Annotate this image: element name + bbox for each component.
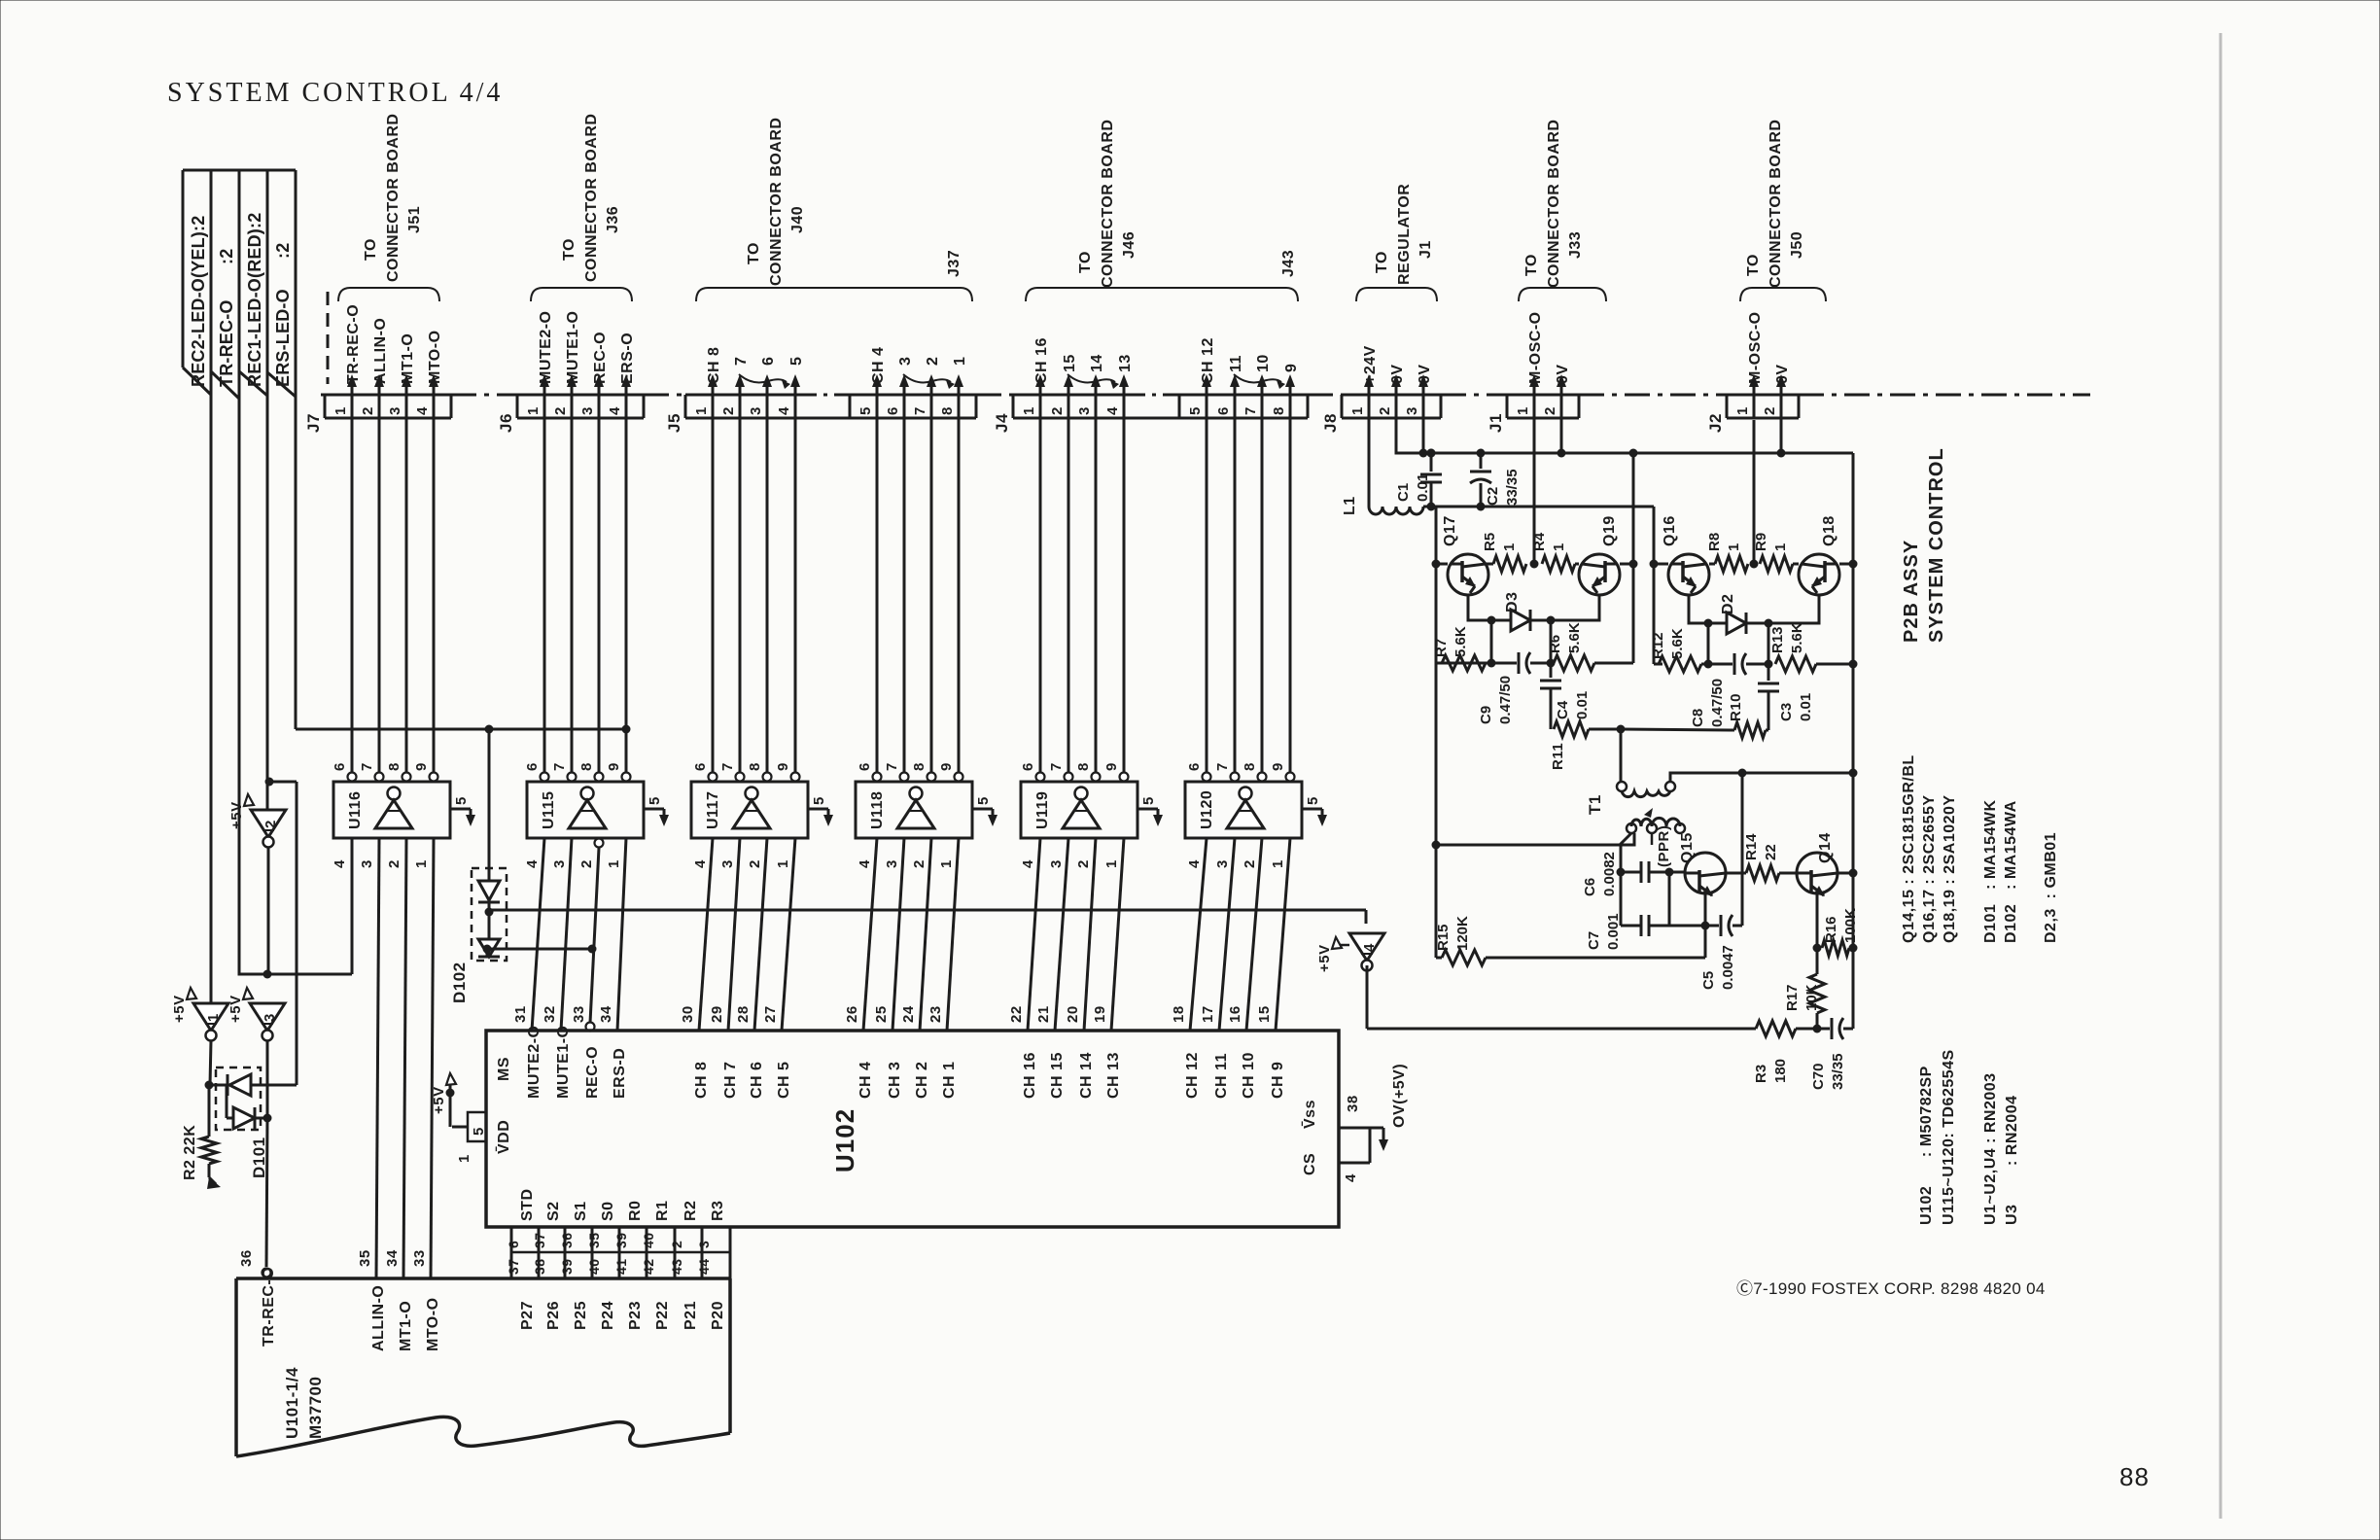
svg-text:44: 44 xyxy=(696,1258,712,1275)
svg-text:3: 3 xyxy=(262,1013,278,1022)
svg-text:MUTE1-O: MUTE1-O xyxy=(565,311,581,385)
svg-text:C5: C5 xyxy=(1700,971,1717,990)
svg-text:J7: J7 xyxy=(304,413,323,433)
svg-text:29: 29 xyxy=(709,1005,725,1023)
feedback wire from bias vertical to T1 secondary xyxy=(1436,833,1634,845)
svg-text:7: 7 xyxy=(1048,762,1065,771)
svg-text:C3: C3 xyxy=(1778,703,1795,721)
svg-text:R3: R3 xyxy=(1753,1065,1769,1083)
svg-text:J1: J1 xyxy=(1487,413,1505,433)
svg-text:1: 1 xyxy=(606,859,622,868)
U117 outputs to U102 30-27 xyxy=(699,838,713,1031)
connector J7 xyxy=(325,394,451,397)
U118 outputs to U102 26-23 xyxy=(863,838,877,1031)
gate1 output down xyxy=(210,1040,211,1085)
svg-text:T1: T1 xyxy=(1586,794,1604,815)
svg-text:TO: TO xyxy=(1523,254,1540,276)
svg-text:9: 9 xyxy=(1270,762,1286,771)
svg-text:7: 7 xyxy=(912,406,928,415)
svg-text:REGULATOR: REGULATOR xyxy=(1396,184,1413,285)
svg-text:14: 14 xyxy=(1089,354,1105,372)
signal label boxes top-left xyxy=(183,169,211,172)
svg-text:M-OSC-O: M-OSC-O xyxy=(1527,311,1544,384)
svg-text:0V: 0V xyxy=(1417,364,1433,384)
Q14 emitter xyxy=(1816,893,1819,948)
svg-text:M37700: M37700 xyxy=(306,1377,325,1439)
wires J6 to U115 xyxy=(543,418,546,777)
svg-text:21: 21 xyxy=(1035,1005,1052,1023)
svg-text:J5: J5 xyxy=(665,413,683,433)
buffer IC U115 xyxy=(527,782,644,838)
capacitor C70 xyxy=(1817,1028,1830,1031)
svg-text:U1~U2,U4 : RN2003: U1~U2,U4 : RN2003 xyxy=(1982,1072,1999,1225)
svg-text:CH 2: CH 2 xyxy=(914,1062,930,1099)
svg-text:J37: J37 xyxy=(946,250,962,277)
svg-text:R5: R5 xyxy=(1482,533,1498,551)
svg-text:R14: R14 xyxy=(1743,833,1760,860)
capacitor C5 xyxy=(1705,925,1719,927)
svg-text:7: 7 xyxy=(551,762,568,771)
IC U101 (torn box) xyxy=(236,1277,730,1280)
node to J2 pin1 xyxy=(1753,420,1756,564)
svg-text:27: 27 xyxy=(762,1005,779,1023)
svg-text:CH 16: CH 16 xyxy=(1022,1052,1038,1099)
svg-text:J8: J8 xyxy=(1321,413,1340,433)
svg-text:R10: R10 xyxy=(1728,693,1744,721)
svg-text:2: 2 xyxy=(747,859,763,868)
svg-text:13: 13 xyxy=(1117,354,1134,372)
C6 line xyxy=(1621,833,1631,872)
svg-text:7: 7 xyxy=(884,762,900,771)
svg-text:CH 4: CH 4 xyxy=(857,1062,874,1099)
svg-text:32: 32 xyxy=(542,1005,558,1023)
svg-text:0.01: 0.01 xyxy=(1574,691,1591,719)
svg-text:40: 40 xyxy=(641,1232,656,1248)
svg-text:22: 22 xyxy=(1008,1005,1025,1023)
svg-text:7: 7 xyxy=(1242,406,1259,415)
page edge line xyxy=(2220,33,2222,1519)
svg-text:1: 1 xyxy=(1270,859,1286,868)
svg-text:+5V: +5V xyxy=(227,995,244,1023)
svg-text:2: 2 xyxy=(669,1241,684,1248)
svg-text:9: 9 xyxy=(606,762,622,771)
svg-text:CS: CS xyxy=(1302,1153,1318,1175)
J1 pin2 to rail xyxy=(1560,418,1563,453)
transistor Q17 xyxy=(1448,554,1488,595)
svg-text:25: 25 xyxy=(873,1005,890,1023)
svg-text:6: 6 xyxy=(506,1241,521,1248)
svg-text:1: 1 xyxy=(1726,543,1742,551)
svg-text:ALLIN-O: ALLIN-O xyxy=(372,318,389,384)
base line Q17 xyxy=(1436,563,1448,566)
gate2 output to node xyxy=(267,847,270,974)
svg-text:ALLIN-O: ALLIN-O xyxy=(370,1285,387,1351)
svg-text:U117: U117 xyxy=(705,791,721,829)
svg-text:3: 3 xyxy=(1076,406,1093,415)
buffer IC U116 xyxy=(333,782,450,838)
svg-text:5: 5 xyxy=(975,796,992,805)
svg-text:ERS-D: ERS-D xyxy=(612,1048,628,1099)
D102 dual diode xyxy=(472,868,507,961)
svg-text:P26: P26 xyxy=(545,1301,562,1330)
svg-text:1: 1 xyxy=(1551,543,1567,551)
svg-text:1: 1 xyxy=(1501,543,1518,551)
svg-text:0.0047: 0.0047 xyxy=(1720,945,1736,990)
bracket J2 / J50 xyxy=(1740,288,1826,301)
svg-text:Q19: Q19 xyxy=(1601,515,1618,546)
svg-text:88: 88 xyxy=(2119,1462,2150,1491)
svg-text:3: 3 xyxy=(1048,859,1065,868)
svg-text:R9: R9 xyxy=(1753,533,1769,551)
svg-text:U115~U120: TD62554S: U115~U120: TD62554S xyxy=(1941,1049,1957,1225)
svg-text:CH 12: CH 12 xyxy=(1200,337,1216,384)
svg-text:CH 7: CH 7 xyxy=(722,1062,739,1099)
svg-text:+5V: +5V xyxy=(228,801,245,829)
svg-text:0.47/50: 0.47/50 xyxy=(1497,676,1514,724)
svg-text:5.6K: 5.6K xyxy=(1789,622,1805,653)
bracket J5 / J40 xyxy=(696,288,972,301)
svg-text:S0: S0 xyxy=(600,1201,616,1221)
svg-text:U118: U118 xyxy=(869,791,886,829)
svg-text:2: 2 xyxy=(360,406,376,415)
svg-text:R16: R16 xyxy=(1823,916,1839,943)
svg-text:MUTE1-O: MUTE1-O xyxy=(555,1026,572,1100)
connector J2 xyxy=(1727,394,1799,397)
buffer IC U120 xyxy=(1185,782,1302,838)
svg-text:R0: R0 xyxy=(627,1201,644,1221)
wire A y750 from box4 to U115 pin9 xyxy=(296,728,626,731)
svg-text:1: 1 xyxy=(938,859,955,868)
svg-text:OV(+5V): OV(+5V) xyxy=(1391,1064,1408,1128)
wires J4 to U120 xyxy=(1206,418,1208,777)
lower rail right half xyxy=(1654,663,1662,666)
svg-text:CONNECTOR BOARD: CONNECTOR BOARD xyxy=(1767,120,1784,288)
svg-text:1: 1 xyxy=(456,1154,472,1163)
svg-text:33: 33 xyxy=(571,1005,587,1023)
svg-text:REC-O: REC-O xyxy=(592,332,609,384)
svg-text:Q16,17 : 2SC2655Y: Q16,17 : 2SC2655Y xyxy=(1921,794,1938,943)
capacitor C9 xyxy=(1491,662,1517,665)
svg-text:L1: L1 xyxy=(1342,496,1358,515)
svg-text:37: 37 xyxy=(506,1258,521,1275)
svg-text:TR-REC-O :2: TR-REC-O :2 xyxy=(217,249,236,387)
Q15 emitter down xyxy=(1704,893,1707,926)
left bias vertical xyxy=(1435,507,1438,958)
svg-text:C4: C4 xyxy=(1555,700,1571,719)
svg-text:11: 11 xyxy=(1228,355,1244,372)
svg-text:24: 24 xyxy=(900,1005,917,1023)
svg-text:P24: P24 xyxy=(600,1301,616,1330)
svg-text:8: 8 xyxy=(911,762,927,771)
svg-text:4: 4 xyxy=(1104,406,1121,415)
svg-text:CH 11: CH 11 xyxy=(1213,1053,1230,1099)
svg-text:1: 1 xyxy=(1103,859,1120,868)
transformer T1 xyxy=(1620,729,1623,782)
svg-text:0.01: 0.01 xyxy=(1798,693,1814,721)
svg-text:5: 5 xyxy=(647,796,663,805)
svg-text:CONNECTOR BOARD: CONNECTOR BOARD xyxy=(385,114,402,282)
U120 outputs to U102 18-15 xyxy=(1190,838,1207,1031)
C7 line xyxy=(1668,872,1671,926)
svg-text:TO: TO xyxy=(1374,251,1390,273)
svg-text:0.01: 0.01 xyxy=(1415,473,1431,502)
svg-text:9: 9 xyxy=(1103,762,1120,771)
svg-text:J36: J36 xyxy=(605,206,621,233)
svg-text:5: 5 xyxy=(453,796,470,805)
transistor Q16 xyxy=(1654,563,1668,566)
svg-text:4: 4 xyxy=(332,859,348,868)
svg-text:23: 23 xyxy=(927,1005,944,1023)
svg-text:5: 5 xyxy=(811,796,827,805)
svg-text:CH 12: CH 12 xyxy=(1184,1052,1201,1099)
svg-text:2: 2 xyxy=(1242,859,1258,868)
buffer IC U117 xyxy=(691,782,808,838)
svg-text:P21: P21 xyxy=(682,1301,699,1330)
svg-text:CONNECTOR BOARD: CONNECTOR BOARD xyxy=(1100,120,1116,288)
bracket J8 / regulator J1 xyxy=(1356,288,1437,301)
svg-text:41: 41 xyxy=(613,1258,629,1275)
svg-text:J6: J6 xyxy=(497,413,515,433)
resistor R14 xyxy=(1746,865,1779,881)
svg-text:R12: R12 xyxy=(1650,632,1666,659)
svg-text:CH 8: CH 8 xyxy=(706,347,722,384)
svg-text:R11: R11 xyxy=(1550,743,1566,770)
svg-text:MTO-O: MTO-O xyxy=(425,1297,441,1351)
svg-text:C1: C1 xyxy=(1395,483,1412,502)
svg-text:10K: 10K xyxy=(1803,984,1820,1011)
svg-text:TR-REC-O: TR-REC-O xyxy=(345,304,362,384)
resistor R11 xyxy=(1554,721,1589,737)
svg-text:CONNECTOR BOARD: CONNECTOR BOARD xyxy=(768,118,785,286)
capacitor C2 xyxy=(1480,453,1483,469)
svg-text:39: 39 xyxy=(613,1232,629,1248)
svg-text:S2: S2 xyxy=(545,1201,562,1221)
svg-text:CH 14: CH 14 xyxy=(1078,1052,1095,1099)
svg-text:C7: C7 xyxy=(1586,931,1602,950)
svg-text:7: 7 xyxy=(719,762,736,771)
svg-text:R13: R13 xyxy=(1769,626,1786,653)
bracket J1 / J33 xyxy=(1519,288,1606,301)
svg-text:J2: J2 xyxy=(1706,413,1725,433)
svg-text:R15: R15 xyxy=(1435,924,1452,951)
svg-text:18: 18 xyxy=(1171,1005,1187,1023)
svg-text:3: 3 xyxy=(551,859,568,868)
transistor Q19 xyxy=(1579,554,1620,595)
svg-text:5.6K: 5.6K xyxy=(1452,626,1469,657)
svg-text:4: 4 xyxy=(692,859,709,868)
svg-text:36: 36 xyxy=(238,1249,255,1267)
svg-text:3: 3 xyxy=(387,406,403,415)
bottom rail xyxy=(1367,1028,1756,1031)
svg-text:1: 1 xyxy=(525,406,542,415)
verticals to lower rail right xyxy=(1707,623,1710,664)
svg-text:0.47/50: 0.47/50 xyxy=(1709,679,1726,727)
svg-text:39: 39 xyxy=(559,1258,575,1275)
resistor R17 xyxy=(1816,948,1819,974)
svg-text:CH 3: CH 3 xyxy=(887,1062,903,1099)
svg-text:Q15: Q15 xyxy=(1679,832,1696,863)
svg-text:U119: U119 xyxy=(1034,791,1051,829)
svg-text:3: 3 xyxy=(897,357,914,366)
svg-text:CH 16: CH 16 xyxy=(1033,337,1050,384)
capacitor C8 xyxy=(1708,663,1732,666)
svg-text:R6: R6 xyxy=(1547,635,1563,653)
bracket J7 / J51 xyxy=(338,288,439,301)
svg-text:D2,3 : GMB01: D2,3 : GMB01 xyxy=(2043,832,2059,943)
svg-text:3: 3 xyxy=(696,1241,712,1248)
svg-text:36: 36 xyxy=(559,1232,575,1248)
svg-text:D102 : MA154WA: D102 : MA154WA xyxy=(2003,800,2019,943)
svg-text:MTO-O: MTO-O xyxy=(427,330,443,384)
svg-text:35: 35 xyxy=(586,1232,602,1248)
wires J5 to U117 xyxy=(712,418,715,777)
svg-text:J40: J40 xyxy=(789,206,806,233)
svg-text:Q17: Q17 xyxy=(1442,515,1458,546)
svg-text:42: 42 xyxy=(641,1258,656,1275)
svg-text:38: 38 xyxy=(532,1258,547,1275)
Q15 collector to R14 xyxy=(1726,872,1746,875)
svg-text:38: 38 xyxy=(1345,1095,1361,1112)
transistor Q15 xyxy=(1669,871,1686,874)
svg-text:1: 1 xyxy=(952,357,968,366)
svg-text:100K: 100K xyxy=(1842,908,1859,943)
svg-text:9: 9 xyxy=(938,762,955,771)
svg-text:2: 2 xyxy=(578,859,595,868)
svg-text:ERS-O: ERS-O xyxy=(619,332,636,384)
svg-text:7: 7 xyxy=(1214,762,1231,771)
svg-text:CH 13: CH 13 xyxy=(1105,1052,1122,1099)
capacitor C3 xyxy=(1767,664,1770,681)
svg-text:8: 8 xyxy=(939,406,956,415)
svg-text:2: 2 xyxy=(262,820,279,828)
svg-text:1: 1 xyxy=(1021,406,1037,415)
svg-text:J46: J46 xyxy=(1121,231,1137,259)
svg-text:REC1-LED-O(RED):2: REC1-LED-O(RED):2 xyxy=(245,213,264,387)
svg-text:3: 3 xyxy=(719,859,736,868)
svg-text:5: 5 xyxy=(471,1127,487,1136)
svg-text:2: 2 xyxy=(1542,406,1558,415)
svg-text:R7: R7 xyxy=(1433,639,1450,657)
IC U102 xyxy=(486,1031,1339,1227)
svg-text:CH 15: CH 15 xyxy=(1049,1052,1066,1099)
svg-text:31: 31 xyxy=(512,1005,529,1023)
svg-text:D102: D102 xyxy=(450,962,469,1003)
wires J7 to U116 xyxy=(351,418,354,777)
gate 2 inverter xyxy=(265,778,274,787)
wire from box1 xyxy=(210,170,213,1003)
dash-dot bus leader left xyxy=(321,394,334,397)
connector J1 xyxy=(1507,394,1579,397)
svg-text:P20: P20 xyxy=(710,1301,726,1330)
svg-text:Q14,15 : 2SC1815GR/BL: Q14,15 : 2SC1815GR/BL xyxy=(1901,754,1917,943)
bracket J6 / J36 xyxy=(531,288,632,301)
svg-text:CH 4: CH 4 xyxy=(870,347,887,384)
U119 outputs to U102 22-19 xyxy=(1028,838,1040,1031)
U115 outputs to U102 pins 31-34 xyxy=(532,838,544,1031)
svg-text:J1: J1 xyxy=(1417,240,1434,259)
svg-text:8: 8 xyxy=(1242,762,1258,771)
gate 1 inverter xyxy=(193,1003,228,1031)
svg-text:15: 15 xyxy=(1256,1005,1273,1023)
pin cell rows between U102 and U101 xyxy=(510,1227,513,1278)
svg-text:TO: TO xyxy=(363,238,379,261)
svg-text:2: 2 xyxy=(552,406,569,415)
svg-text:3: 3 xyxy=(748,406,764,415)
svg-text:37: 37 xyxy=(532,1232,547,1248)
svg-text:P2B ASSY: P2B ASSY xyxy=(1901,540,1922,643)
svg-text:33/35: 33/35 xyxy=(1504,469,1521,506)
svg-text:35: 35 xyxy=(357,1249,373,1267)
svg-text:6: 6 xyxy=(1020,762,1036,771)
svg-text:STD: STD xyxy=(519,1189,536,1222)
svg-text:5: 5 xyxy=(1187,406,1204,415)
svg-text:6: 6 xyxy=(885,406,901,415)
svg-text:R3: R3 xyxy=(710,1201,726,1221)
svg-text:16: 16 xyxy=(1227,1005,1243,1023)
svg-text:C70: C70 xyxy=(1810,1063,1827,1090)
svg-text:2: 2 xyxy=(1049,406,1066,415)
svg-text:3: 3 xyxy=(884,859,900,868)
U102 VDD pin left xyxy=(446,1073,456,1085)
svg-text:28: 28 xyxy=(735,1005,752,1023)
resistor R3 xyxy=(1756,1021,1796,1036)
svg-text:U115: U115 xyxy=(541,791,557,829)
svg-text:5: 5 xyxy=(1305,796,1321,805)
svg-text:TR-REC-O: TR-REC-O xyxy=(261,1267,277,1347)
lower rail left half xyxy=(1436,662,1491,665)
svg-text:+5V: +5V xyxy=(431,1086,447,1114)
svg-text:MT1-O: MT1-O xyxy=(398,1301,414,1351)
svg-text:J51: J51 xyxy=(406,206,423,233)
svg-text:TO: TO xyxy=(1745,254,1762,276)
svg-text:U102 : M50782SP: U102 : M50782SP xyxy=(1918,1066,1935,1225)
ground rail y466 xyxy=(1396,418,1853,453)
svg-text:4: 4 xyxy=(414,406,431,415)
svg-text:P23: P23 xyxy=(627,1301,644,1330)
svg-text:D101 : MA154WK: D101 : MA154WK xyxy=(1982,799,1999,943)
svg-text:3: 3 xyxy=(1404,406,1420,415)
resistor R4 xyxy=(1542,556,1575,572)
svg-text:ERS-LED-O :2: ERS-LED-O :2 xyxy=(273,243,293,387)
svg-text:J33: J33 xyxy=(1567,231,1584,259)
svg-text:20: 20 xyxy=(1065,1005,1081,1023)
svg-text:6: 6 xyxy=(1215,406,1232,415)
svg-text:C6: C6 xyxy=(1582,878,1598,896)
svg-text:D3: D3 xyxy=(1504,592,1521,612)
connector J4 xyxy=(1013,394,1124,397)
svg-text:4: 4 xyxy=(1343,1173,1359,1182)
svg-text:8: 8 xyxy=(1075,762,1092,771)
svg-text:CH 8: CH 8 xyxy=(693,1062,710,1099)
svg-text:2: 2 xyxy=(386,859,402,868)
svg-text:1: 1 xyxy=(332,406,349,415)
bracket J4 / J46 xyxy=(1026,288,1298,301)
transistor Q14 xyxy=(1797,853,1837,893)
vertical to lower rail left xyxy=(1490,620,1493,663)
J2 pin2 to rail xyxy=(1780,418,1783,453)
T1 right terminal to collector line xyxy=(1670,773,1853,782)
svg-text:0.001: 0.001 xyxy=(1605,913,1622,950)
right vertical trunk xyxy=(1852,453,1855,1029)
buffer IC U118 xyxy=(856,782,972,838)
svg-text:Ⓒ7-1990 FOSTEX CORP. 8298 4820: Ⓒ7-1990 FOSTEX CORP. 8298 4820 04 xyxy=(1736,1279,2046,1298)
svg-text:CH 6: CH 6 xyxy=(749,1062,765,1099)
svg-text:R1: R1 xyxy=(654,1201,671,1221)
svg-text:1: 1 xyxy=(1349,406,1366,415)
node line D3 xyxy=(1468,595,1491,620)
svg-text:J43: J43 xyxy=(1280,250,1297,277)
svg-text:4: 4 xyxy=(857,859,873,868)
